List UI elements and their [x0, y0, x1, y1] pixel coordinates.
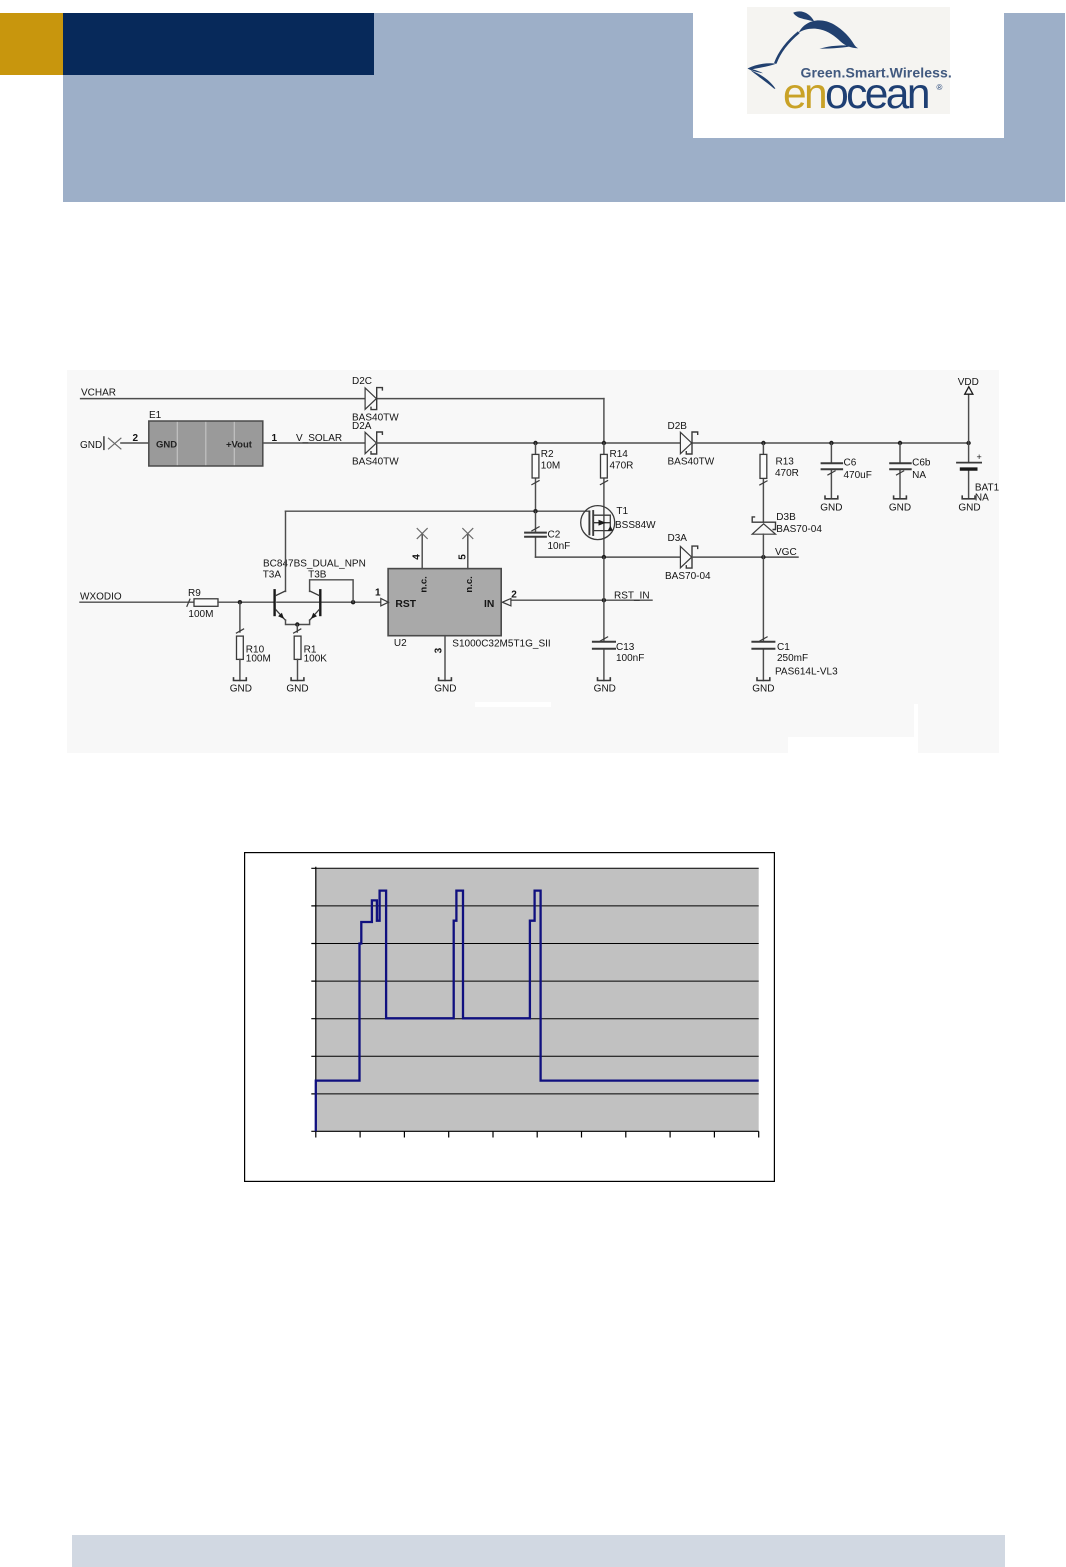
- wire drain rail (C2 to D3A): [536, 556, 681, 558]
- wire T1 gate row: [286, 510, 590, 512]
- top grey-blue band: [63, 13, 1065, 202]
- svg-text:10nF: 10nF: [548, 541, 571, 552]
- svg-text:GND: GND: [434, 684, 456, 695]
- node V_SOLAR: [296, 433, 342, 444]
- white patch artifacts: [475, 702, 551, 707]
- junction VGC: [761, 555, 765, 559]
- wire R9 to T3A base: [218, 601, 274, 603]
- ground under C6b: [889, 496, 911, 513]
- resistor R9 100M: [187, 588, 218, 620]
- svg-text:250mF: 250mF: [777, 653, 808, 664]
- junction rail/C6b: [898, 441, 902, 445]
- svg-text:D2A: D2A: [352, 421, 372, 432]
- wire T3A collector to gate row: [285, 511, 287, 591]
- svg-text:BAS70-04: BAS70-04: [665, 571, 711, 582]
- bottom light band: [72, 1535, 1005, 1567]
- pin 2 label: [133, 433, 139, 444]
- pin 5 no-connect: [457, 529, 473, 569]
- svg-text:VDD: VDD: [958, 377, 979, 388]
- junction T1 drain: [602, 555, 606, 559]
- diode D2C (BAS40TW): [352, 376, 399, 424]
- svg-text:D2C: D2C: [352, 376, 372, 387]
- waveform trace: [316, 891, 759, 1132]
- transistor T1 BSS84W: [581, 506, 656, 540]
- ground under BAT1: [958, 496, 980, 513]
- wire T1 drain to C13: [603, 557, 605, 641]
- svg-text:U2: U2: [394, 638, 407, 649]
- svg-text:100M: 100M: [188, 609, 213, 620]
- svg-text:BSS84W: BSS84W: [615, 520, 656, 531]
- label BC847BS_DUAL_NPN: [263, 558, 366, 569]
- svg-text:D3B: D3B: [776, 512, 796, 523]
- svg-text:E1: E1: [149, 410, 162, 421]
- node VCHAR: [81, 388, 116, 399]
- dolphin chin swoosh: [820, 45, 855, 48]
- junction R10 tap: [238, 600, 242, 604]
- svg-text:S1000C32M5T1G_SII: S1000C32M5T1G_SII: [452, 638, 550, 649]
- svg-text:V_SOLAR: V_SOLAR: [296, 433, 342, 444]
- pin 2 arrow into U2: [502, 590, 517, 606]
- CHART: [244, 852, 775, 1182]
- diode D2B (BAS40TW): [668, 421, 715, 467]
- pin 4 no-connect: [412, 529, 428, 569]
- plot area: [316, 868, 759, 1131]
- wire E1 pin 1 to D2A: [263, 442, 365, 444]
- capacitor C1 250mF: [752, 557, 838, 680]
- gold square: [0, 13, 63, 75]
- gridlines: [316, 868, 759, 1094]
- svg-text:T3A: T3A: [263, 570, 282, 581]
- wire emitters rail: [286, 620, 310, 625]
- navy header rectangle: [63, 13, 374, 75]
- junction RST_IN: [602, 598, 606, 602]
- dolphin pectoral fin: [748, 63, 777, 73]
- pin 3 wire: [434, 636, 445, 681]
- svg-text:100K: 100K: [304, 654, 328, 665]
- svg-text:R9: R9: [188, 588, 201, 599]
- svg-text:470R: 470R: [775, 468, 799, 479]
- svg-text:4: 4: [412, 554, 423, 560]
- pin 4 n.c. label: [418, 576, 429, 592]
- junction rail/C6: [829, 441, 833, 445]
- svg-text:1: 1: [375, 588, 381, 599]
- dolphin body arc: [799, 20, 859, 48]
- svg-text:VGC: VGC: [775, 547, 797, 558]
- svg-text:GND: GND: [889, 502, 911, 513]
- dolphin lower fin spike: [751, 70, 776, 89]
- junction emitters: [295, 622, 299, 626]
- SCHEMATIC: [67, 370, 999, 753]
- svg-text:GND: GND: [958, 502, 980, 513]
- ground under U2 pin 3: [434, 678, 456, 695]
- node VGC: [775, 547, 797, 558]
- pin 5 n.c. label: [464, 576, 475, 592]
- svg-text:GND: GND: [156, 439, 177, 450]
- svg-text:470R: 470R: [610, 460, 634, 471]
- svg-text:R2: R2: [541, 449, 554, 460]
- diode D3B (BAS70-04) vertical: [752, 512, 822, 557]
- IC U2 S1000C32M5T1G_SII: [388, 569, 551, 650]
- svg-text:GND: GND: [820, 502, 842, 513]
- svg-text:®: ®: [937, 83, 943, 92]
- dolphin tail fin: [793, 11, 814, 21]
- resistor R1 100K: [294, 629, 328, 681]
- svg-text:5: 5: [457, 554, 468, 560]
- svg-text:D2B: D2B: [668, 421, 688, 432]
- junction T3B collector: [351, 600, 355, 604]
- svg-text:GND: GND: [752, 684, 774, 695]
- svg-text:IN: IN: [484, 599, 494, 610]
- junction rail/R14: [602, 441, 606, 445]
- svg-text:R14: R14: [610, 449, 629, 460]
- svg-text:NA: NA: [912, 470, 926, 481]
- wire VDD rail (D2B to BAT1): [692, 442, 969, 444]
- solar cell E1: [149, 410, 263, 466]
- svg-text:GND: GND: [80, 440, 102, 451]
- resistor R10 100M: [236, 602, 270, 680]
- ground under R1: [286, 678, 308, 695]
- svg-text:VCHAR: VCHAR: [81, 388, 116, 399]
- svg-text:BC847BS_DUAL_NPN: BC847BS_DUAL_NPN: [263, 558, 366, 569]
- x axis: [316, 1131, 759, 1137]
- wire junction to R1: [296, 625, 298, 633]
- capacitor C2 10nF: [525, 511, 570, 557]
- junction rail/BAT1: [966, 441, 970, 445]
- svg-text:BAS40TW: BAS40TW: [352, 456, 399, 467]
- svg-text:C6: C6: [844, 458, 857, 469]
- battery BAT1 NA: [957, 443, 1000, 504]
- svg-text:BAS70-04: BAS70-04: [776, 524, 822, 535]
- diode D3A (BAS70-04): [665, 533, 711, 582]
- ground under R10: [230, 678, 252, 695]
- resistor R2 10M: [532, 443, 560, 511]
- power flag VDD: [958, 377, 979, 443]
- wire WXODIO to R9: [80, 601, 194, 603]
- svg-text:enocean: enocean: [783, 71, 928, 118]
- svg-text:C6b: C6b: [912, 458, 931, 469]
- svg-text:2: 2: [133, 433, 139, 444]
- wire VCHAR vertical drop to V_SOLAR rail: [603, 399, 605, 443]
- wire E1 pin 2: [121, 442, 149, 444]
- wire D3A to VGC node: [692, 556, 798, 558]
- svg-text:RST_IN: RST_IN: [614, 591, 650, 602]
- pin 1 arrow into U2: [375, 588, 388, 606]
- svg-text:WXODIO: WXODIO: [80, 592, 122, 603]
- ground under C13: [594, 678, 616, 695]
- svg-text:C2: C2: [548, 529, 561, 540]
- transistor T3B: [308, 570, 327, 621]
- wire T3A base to T3B base: [277, 601, 320, 603]
- svg-text:+Vout: +Vout: [226, 439, 253, 450]
- svg-text:GND: GND: [230, 684, 252, 695]
- svg-text:BAS40TW: BAS40TW: [668, 456, 715, 467]
- svg-text:1: 1: [272, 433, 278, 444]
- diode D2A (BAS40TW): [352, 421, 399, 467]
- ground under C6: [820, 496, 842, 513]
- svg-text:GND: GND: [594, 684, 616, 695]
- svg-text:100M: 100M: [246, 654, 271, 665]
- capacitor C13 100nF: [593, 637, 644, 681]
- resistor R14 470R: [600, 443, 633, 557]
- transistor T3A: [263, 570, 286, 621]
- svg-text:GND: GND: [286, 684, 308, 695]
- svg-text:n.c.: n.c.: [464, 576, 475, 592]
- svg-text:PAS614L-VL3: PAS614L-VL3: [775, 667, 838, 678]
- enocean logo: [693, 0, 1004, 138]
- svg-text:C13: C13: [616, 642, 635, 653]
- svg-text:T1: T1: [616, 506, 628, 517]
- svg-text:RST: RST: [395, 599, 416, 610]
- wire T3B collector loop to base rail: [310, 580, 354, 602]
- pin 1 label: [272, 433, 278, 444]
- capacitor C6 470uF: [822, 443, 872, 499]
- wire VCHAR horizontal: [81, 398, 604, 400]
- wire RST_IN row: [511, 599, 652, 601]
- svg-text:10M: 10M: [541, 460, 560, 471]
- capacitor C6b NA: [890, 443, 931, 499]
- node WXODIO: [80, 592, 122, 603]
- svg-text:n.c.: n.c.: [418, 576, 429, 592]
- wire T3B to U2 pin 1: [322, 601, 381, 603]
- svg-text:D3A: D3A: [668, 533, 688, 544]
- svg-text:C1: C1: [777, 642, 790, 653]
- y axis: [311, 867, 316, 1132]
- junction gate row / R2: [533, 509, 537, 513]
- white logo box: [693, 0, 1004, 138]
- dolphin face line: [775, 32, 799, 63]
- svg-text:2: 2: [511, 590, 517, 601]
- wire V_SOLAR rail (D2A to D2B): [377, 442, 681, 444]
- resistor R13 470R: [760, 443, 799, 522]
- svg-text:R13: R13: [776, 457, 795, 468]
- svg-text:470uF: 470uF: [844, 470, 872, 481]
- svg-text:100nF: 100nF: [616, 653, 644, 664]
- svg-text:T3B: T3B: [308, 570, 327, 581]
- svg-text:3: 3: [434, 647, 445, 653]
- svg-text:+: +: [977, 452, 982, 462]
- ground flag GND at E1 pin 2 (no-connect): [80, 437, 121, 451]
- junction rail/R13: [761, 441, 765, 445]
- junction rail/R2: [533, 441, 537, 445]
- node RST_IN: [614, 591, 650, 602]
- ground under C1: [752, 678, 774, 695]
